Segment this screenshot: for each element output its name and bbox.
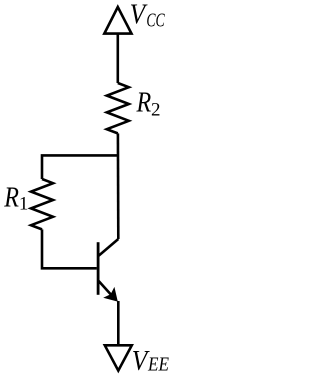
wire VCC to R2 (117, 34, 120, 83)
power symbol VEE (105, 345, 132, 370)
svg-text:1: 1 (19, 194, 29, 215)
resistor R1 (31, 179, 53, 229)
transistor Q1 emitter arrow (103, 287, 118, 302)
wire R1 to base (42, 229, 97, 268)
svg-text:2: 2 (151, 100, 161, 121)
transistor Q1 collector (98, 239, 118, 256)
svg-text:CC: CC (146, 10, 165, 31)
svg-text:V: V (130, 0, 148, 31)
svg-text:R: R (136, 86, 152, 118)
svg-text:R: R (3, 181, 19, 213)
transistor Q1 emitter (98, 280, 114, 298)
svg-text:EE: EE (147, 355, 169, 376)
wire R2 to collector node (117, 133, 120, 239)
resistor R2 (107, 83, 129, 133)
wire node C to left branch (42, 155, 118, 179)
transistor Q1 base bar (97, 242, 100, 295)
power symbol VCC (104, 7, 131, 34)
wire emitter to VEE (117, 301, 120, 345)
